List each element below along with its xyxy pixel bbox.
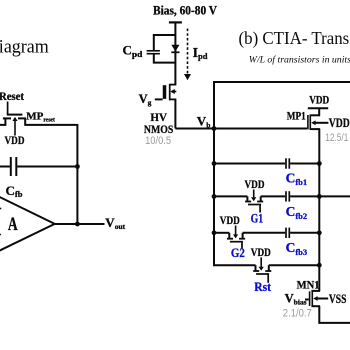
- transistor MPreset right contact: [18, 117, 26, 119]
- transistor MP1 bulk arrow to VDD: [311, 120, 315, 125]
- svg-text:(b) CTIA- Transimpedance ampli: (b) CTIA- Transimpedance amplifier: [239, 28, 350, 49]
- transistor G2 left contact: [227, 238, 233, 240]
- svg-text:2.1/0.7: 2.1/0.7: [283, 308, 312, 320]
- wire row2 left segment: [214, 195, 247, 197]
- svg-text:Cpd: Cpd: [123, 43, 144, 59]
- transistor HV NMOS drain stub: [170, 84, 177, 86]
- svg-text:HV: HV: [150, 110, 167, 124]
- transistor MPreset gate lead wire: [7, 102, 9, 115]
- capacitor Cfb2 plates: [285, 191, 287, 201]
- transistor HV NMOS bulk arrow: [174, 91, 177, 93]
- node dot row3 left: [212, 230, 217, 235]
- wire row2 right segment to edge: [290, 195, 350, 197]
- wire bias vertical line: [174, 22, 176, 84]
- transistor MN1 bulk arrow to VSS: [313, 296, 317, 301]
- wire right bus vertical: [318, 129, 320, 291]
- transistor Rst bulk arrow from VDD: [260, 257, 262, 267]
- svg-text:10/0.5: 10/0.5: [145, 135, 171, 147]
- transistor MN1 channel bar: [311, 290, 313, 307]
- node dot row3 right: [317, 230, 322, 235]
- svg-text:Ipd: Ipd: [193, 46, 208, 61]
- transistor MN1 gate bar: [309, 291, 311, 306]
- svg-text:VDD: VDD: [245, 179, 265, 191]
- op-amp A triangle: [0, 184, 55, 264]
- svg-text:Vout: Vout: [105, 215, 125, 231]
- node dot row2 left: [212, 194, 217, 199]
- bias supply T-bar: [169, 21, 182, 23]
- wire row4 right segment: [269, 264, 320, 266]
- wire photodiode box bottom and left: [154, 55, 176, 63]
- transistor G2 gate bar: [230, 241, 243, 243]
- svg-text:W/L of transistors in units of: W/L of transistors in units of µm: [249, 55, 350, 66]
- svg-text:NMOS: NMOS: [144, 124, 174, 136]
- wire MP1 source from rail: [318, 108, 320, 115]
- op-amp plus input mark: [0, 234, 1, 236]
- wire op-amp output: [55, 223, 105, 225]
- transistor MPreset gate bar: [7, 114, 23, 116]
- svg-text:MPreset: MPreset: [26, 111, 55, 124]
- transistor HV NMOS source stub: [170, 98, 177, 100]
- wire left bus vertical: [213, 81, 215, 266]
- wire MN1 source down and right: [319, 306, 350, 323]
- transistor MP1 top contact: [311, 114, 320, 116]
- transistor Rst left contact: [253, 270, 259, 272]
- svg-text:VDD: VDD: [329, 116, 350, 130]
- transistor G1 gate bar: [248, 204, 261, 206]
- transistor HV NMOS channel bar: [169, 84, 171, 101]
- node dot row4 right: [317, 263, 322, 268]
- transistor Rst left terminal corner: [255, 265, 257, 271]
- capacitor Cfb plates: [10, 157, 12, 176]
- wire MPreset right terminal: [25, 118, 77, 125]
- wire row2 middle segment: [261, 195, 286, 197]
- transistor Rst gate lead down: [267, 274, 269, 283]
- transistor G1 left terminal corner: [246, 196, 248, 201]
- wire HV NMOS source down: [174, 99, 176, 128]
- svg-text:Reset: Reset: [0, 89, 24, 103]
- current Ipd dashed arrow: [187, 29, 189, 75]
- transistor MP1 VDD rail bar: [308, 107, 328, 109]
- transistor MN1 top contact: [311, 290, 320, 292]
- node dot row2 right: [317, 194, 322, 199]
- wire top rail of section b: [213, 81, 350, 83]
- svg-text:G2: G2: [231, 246, 245, 260]
- transistor MN1 bottom contact: [311, 305, 320, 307]
- transistor HV NMOS thick gate bar: [163, 85, 167, 99]
- transistor MN1 gate lead from Vbias: [305, 299, 309, 301]
- transistor Rst right terminal corner: [268, 265, 270, 271]
- wire feedback vertical: [76, 124, 78, 224]
- capacitor Cfb left wire: [0, 166, 10, 168]
- svg-text:G1: G1: [251, 212, 264, 226]
- transistor G1 gate lead down: [259, 205, 261, 213]
- svg-text:VSS: VSS: [329, 292, 347, 306]
- transistor G2 right terminal corner: [242, 233, 244, 239]
- transistor G2 right contact: [239, 238, 245, 240]
- transistor Rst gate bar: [256, 273, 269, 275]
- transistor G1 left contact: [245, 201, 251, 203]
- svg-text:iagram: iagram: [0, 38, 49, 58]
- svg-text:Rst: Rst: [254, 280, 272, 294]
- wire MPreset left terminal to left edge: [0, 118, 5, 125]
- wire row4 left segment: [213, 264, 255, 266]
- wire row3 middle segment: [243, 232, 286, 234]
- svg-text:MP1: MP1: [287, 110, 306, 122]
- svg-text:VDD: VDD: [5, 135, 25, 147]
- wire Vb node to MP1 gate: [175, 128, 307, 130]
- photodiode D1 cathode bar: [171, 51, 179, 53]
- transistor G1 right contact: [257, 201, 263, 203]
- capacitor Cpd plates: [147, 50, 160, 52]
- node dot Vb on left bus: [212, 126, 217, 131]
- capacitor Cfb1 plates: [285, 158, 287, 168]
- svg-text:Cfb2: Cfb2: [286, 204, 308, 221]
- transistor MPreset left contact: [3, 117, 11, 119]
- transistor G2 left terminal corner: [228, 233, 230, 239]
- transistor G1 right terminal corner: [260, 196, 262, 201]
- svg-text:Cfb3: Cfb3: [286, 240, 308, 257]
- transistor G1 bulk arrow from VDD: [253, 190, 255, 198]
- photodiode D1 triangle: [171, 45, 179, 52]
- transistor HV NMOS gate lead: [155, 98, 163, 100]
- wire row3 left segment: [214, 232, 229, 234]
- svg-text:Bias, 60-80 V: Bias, 60-80 V: [153, 3, 217, 17]
- transistor G2 bulk arrow from VDD: [235, 226, 237, 236]
- svg-text:Vb: Vb: [197, 113, 211, 129]
- op-amp minus input mark: [0, 208, 1, 210]
- node dot row1 left: [212, 161, 217, 166]
- svg-text:VDD: VDD: [220, 215, 240, 227]
- transistor G2 gate lead down: [241, 242, 243, 249]
- transistor MP1 gate bar: [307, 115, 309, 129]
- svg-text:12.5/1: 12.5/1: [325, 132, 348, 144]
- svg-text:VDD: VDD: [309, 94, 329, 106]
- transistor Rst right contact: [265, 270, 271, 272]
- svg-text:Vbias: Vbias: [285, 292, 307, 307]
- node junction dot feedback/cap: [75, 164, 80, 169]
- svg-text:Cfb1: Cfb1: [286, 170, 308, 187]
- capacitor Cfb right wire: [17, 166, 77, 168]
- svg-text:A: A: [8, 214, 18, 235]
- wire row3 right segment: [290, 232, 319, 234]
- transistor MP1 channel bar: [309, 114, 311, 130]
- node junction dot output: [75, 222, 80, 227]
- wire photodiode box top and left: [154, 35, 176, 50]
- transistor MPreset bulk arrow from VDD: [14, 120, 16, 136]
- wire row1 left segment: [214, 163, 285, 165]
- node dot row1 right: [317, 161, 322, 166]
- svg-text:Vg: Vg: [139, 92, 152, 107]
- capacitor Cfb3 plates: [285, 228, 287, 238]
- svg-text:VDD: VDD: [251, 247, 271, 259]
- wire row1 right segment: [290, 163, 319, 165]
- transistor MP1 bottom contact: [311, 128, 320, 130]
- svg-text:Cfb: Cfb: [6, 183, 23, 199]
